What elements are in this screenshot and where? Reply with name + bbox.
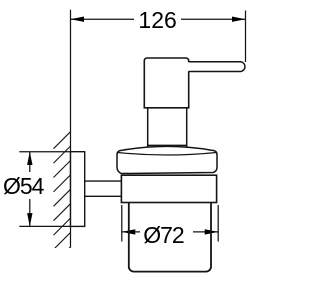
svg-text:126: 126 <box>138 7 176 33</box>
svg-text:Ø54: Ø54 <box>3 173 45 199</box>
svg-text:Ø72: Ø72 <box>143 222 184 248</box>
